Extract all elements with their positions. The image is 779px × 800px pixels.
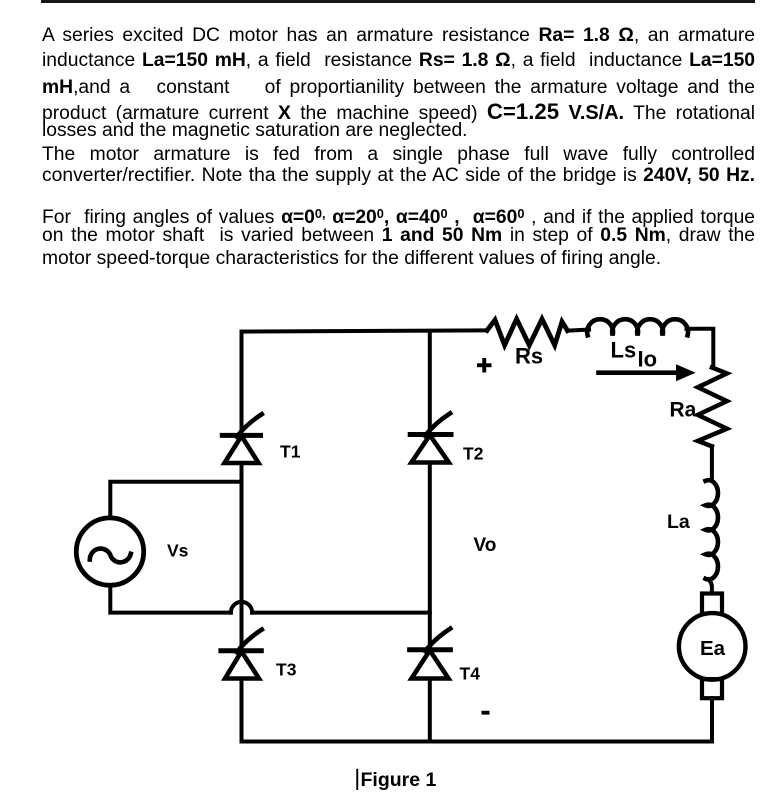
wire: bottom bus xyxy=(242,740,713,744)
resistor Rs xyxy=(487,319,568,345)
resistor Ra xyxy=(698,368,727,447)
sine symbol xyxy=(90,549,131,563)
svg-text:La: La xyxy=(667,511,690,533)
wire: motor to bottom bus xyxy=(710,698,714,741)
current arrow Io xyxy=(599,370,677,375)
wire: Vs positive lead xyxy=(110,482,241,517)
label plus xyxy=(477,358,492,373)
svg-text:Rs: Rs xyxy=(515,344,543,369)
motor circle Ea xyxy=(679,613,746,680)
svg-text:T1: T1 xyxy=(280,441,301,461)
wire: left leg upper xyxy=(240,332,244,436)
inductor La xyxy=(706,480,718,579)
wire: Rs to Ls xyxy=(568,330,590,331)
thyristor T2 xyxy=(410,413,451,462)
top rule xyxy=(41,0,755,3)
svg-text:T4: T4 xyxy=(460,663,481,683)
wire: top bus from left bridge leg to Rs xyxy=(242,330,487,331)
caption caret xyxy=(356,769,358,790)
svg-text:T2: T2 xyxy=(463,443,484,463)
svg-text:Vo: Vo xyxy=(474,535,497,556)
wire: right leg lower xyxy=(428,679,432,742)
svg-text:Io: Io xyxy=(638,347,658,372)
svg-text:Ra: Ra xyxy=(670,399,697,422)
source Vs circle xyxy=(76,518,143,585)
arrowhead Io xyxy=(676,364,696,381)
label minus xyxy=(482,711,490,715)
svg-text:Figure 1: Figure 1 xyxy=(361,769,437,791)
wire: right leg upper xyxy=(428,332,432,435)
wire: mid bus to right leg xyxy=(252,611,430,615)
thyristor T1 xyxy=(222,414,261,463)
svg-text:Vs: Vs xyxy=(167,540,189,560)
wire: left leg lower xyxy=(240,679,244,742)
thyristor T3 xyxy=(221,630,262,679)
inductor Ls xyxy=(587,319,688,335)
wire: Ra to La xyxy=(710,446,714,479)
wire: left leg middle xyxy=(240,463,244,651)
wire: right leg middle xyxy=(428,463,432,650)
wire: La to motor xyxy=(709,579,712,593)
svg-text:T3: T3 xyxy=(276,659,297,679)
motor brush bottom xyxy=(702,679,722,698)
thyristor T4 xyxy=(410,629,451,679)
wire: Vs negative lead xyxy=(110,585,231,613)
svg-text:Ls: Ls xyxy=(611,338,637,363)
svg-text:Ea: Ea xyxy=(700,637,726,660)
wire hop over left leg xyxy=(231,602,252,613)
wire: Ls to top-right corner xyxy=(687,329,714,368)
motor brush top xyxy=(702,594,722,614)
